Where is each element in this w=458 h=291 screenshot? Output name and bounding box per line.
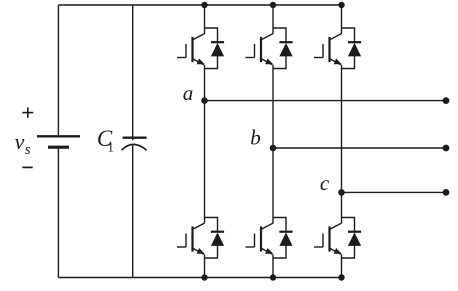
transistor Q2 (IGBT, phase c lower) (314, 223, 342, 254)
wire: phase b output line (273, 147, 446, 149)
terminal dot: phase a output (443, 97, 450, 104)
diode D1 (antiparallel with Q1) (205, 28, 225, 69)
wire: leg b upper emitter to node b (272, 65, 274, 148)
diode D2 (antiparallel with Q2) (342, 218, 362, 259)
wire: phase a output line (205, 100, 447, 102)
svg-text:1: 1 (107, 139, 114, 154)
wire: capacitor branch lower (C1 to bottom rail) (132, 144, 134, 277)
wire: bottom DC bus rail (58, 277, 341, 279)
diode D5 (antiparallel with Q5) (342, 28, 362, 69)
capacitor C1 (DC link) (122, 138, 147, 151)
label: - polarity of Vs (22, 166, 32, 168)
wire: leg c upper emitter to node c (341, 65, 343, 193)
terminal dot: phase c output (443, 189, 450, 196)
junction: bottom rail / leg b (270, 274, 276, 280)
node a (junction dot) (201, 97, 208, 104)
diode D4 (antiparallel with Q4) (205, 218, 225, 259)
junction: bottom rail / leg a (201, 274, 207, 280)
transistor Q5 (IGBT, phase c upper) (314, 34, 342, 65)
diode D3 (antiparallel with Q3) (273, 28, 293, 69)
svg-text:a: a (183, 81, 194, 105)
diode D6 (antiparallel with Q6) (273, 218, 293, 259)
wire: leg c lower emitter to bottom rail (341, 254, 343, 277)
wire: leg b node to lower collector (272, 148, 274, 223)
wire: leg b lower emitter to bottom rail (272, 254, 274, 277)
transistor Q4 (IGBT, phase a lower) (177, 223, 205, 254)
terminal dot: phase b output (443, 145, 450, 152)
node c (junction dot) (338, 189, 345, 196)
wire: leg b upper collector (272, 5, 274, 34)
svg-text:s: s (25, 142, 31, 158)
wire: top DC bus rail (58, 4, 341, 6)
svg-text:c: c (320, 171, 330, 195)
voltage source Vs (battery) (37, 136, 80, 147)
node b (junction dot) (270, 145, 277, 152)
wire: leg c upper collector (341, 5, 343, 34)
junction: bottom rail / leg c (338, 274, 344, 280)
transistor Q3 (IGBT, phase b upper) (246, 34, 274, 65)
junction: top rail / leg c (338, 2, 344, 8)
wire: leg a lower emitter to bottom rail (204, 254, 206, 277)
label: + polarity of Vs (22, 107, 33, 117)
junction: top rail / leg a (201, 2, 207, 8)
wire: leg a upper collector (204, 5, 206, 34)
wire: leg a node to lower collector (204, 101, 206, 224)
svg-text:v: v (15, 129, 25, 154)
transistor Q6 (IGBT, phase b lower) (246, 223, 274, 254)
svg-text:b: b (250, 126, 260, 150)
wire: source branch upper (top rail to battery + plate) (57, 5, 59, 136)
transistor Q1 (IGBT, phase a upper) (177, 34, 205, 65)
wire: leg c node to lower collector (341, 192, 343, 223)
wire: leg a upper emitter to node a (204, 65, 206, 101)
wire: source branch lower (battery - plate to bottom rail) (57, 147, 59, 277)
junction: top rail / leg b (270, 2, 276, 8)
wire: phase c output line (342, 191, 447, 193)
wire: capacitor branch upper (top rail to C1) (132, 5, 134, 140)
